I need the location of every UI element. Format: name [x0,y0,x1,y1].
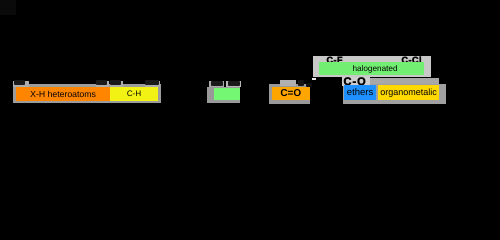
gray panel triple bonds [207,87,240,103]
number box 4000 [13,81,29,87]
number box 2850 [110,81,123,87]
bar organometallic [378,85,439,100]
number box 1900 [280,80,296,86]
number 1650 [298,80,304,87]
number box 2500 [145,81,161,87]
bar halogenated [319,62,424,75]
gray panel C=O [269,84,310,104]
white tick [312,78,316,81]
number box 2260 [209,81,224,88]
bar X-H heteroatoms [16,87,110,101]
label C-Cl [402,55,423,65]
gray panel halogenated [313,56,431,78]
gray panel ethers/organometallic (main) [343,84,446,104]
label C-F [327,55,344,65]
number box 3000 [96,81,109,87]
gray panel ethers/organometallic (top strip) [343,78,439,85]
bar ethers [344,85,376,100]
bar C-H [110,87,158,101]
gray panel row1 (X-H / C-H) [13,84,161,103]
dark corner square [0,0,16,15]
bar triple bonds [214,88,240,100]
bar C=O [272,87,310,100]
number box 2100 [226,81,241,88]
label box C-O [342,77,370,86]
